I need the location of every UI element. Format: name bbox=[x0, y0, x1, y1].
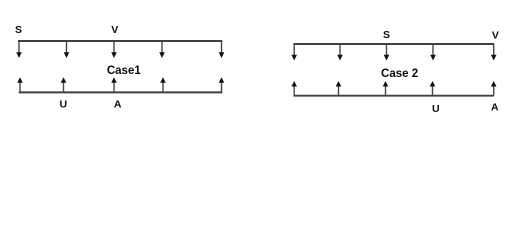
case1 up arrow 3 bbox=[111, 77, 117, 92]
svg-text:Case 2: Case 2 bbox=[381, 68, 418, 80]
case1 top rail bbox=[18, 40, 222, 42]
case1 down arrow 3 bbox=[111, 41, 117, 58]
case2 up arrow 1 bbox=[291, 81, 297, 96]
case2 up arrow 5 bbox=[491, 81, 497, 96]
case2 down arrow 4 bbox=[430, 44, 436, 61]
case1 up arrow 5 bbox=[219, 77, 225, 92]
case2 down arrow 3 bbox=[384, 44, 390, 61]
case1 down arrow 4 bbox=[159, 41, 165, 58]
svg-text:A: A bbox=[114, 99, 122, 111]
svg-text:U: U bbox=[60, 99, 68, 111]
case2 up arrow 4 bbox=[430, 81, 436, 96]
case2 down arrow 2 bbox=[337, 44, 343, 61]
case1 bottom rail bbox=[19, 91, 223, 93]
svg-text:A: A bbox=[491, 102, 499, 114]
case1 up arrow 2 bbox=[61, 77, 67, 92]
case1 down arrow 2 bbox=[64, 41, 70, 58]
case1 down arrow 5 bbox=[219, 41, 225, 58]
case1 up arrow 4 bbox=[160, 77, 166, 92]
case2 down arrow 1 bbox=[291, 44, 297, 61]
case1 up arrow 1 bbox=[17, 77, 23, 92]
case2 up arrow 2 bbox=[336, 81, 342, 96]
case2 top rail bbox=[293, 43, 494, 45]
case2 down arrow 5 bbox=[491, 44, 497, 61]
svg-text:S: S bbox=[15, 24, 22, 36]
svg-text:S: S bbox=[383, 29, 390, 41]
case2 bottom rail bbox=[294, 95, 494, 97]
case1 down arrow 1 bbox=[16, 41, 22, 58]
svg-text:V: V bbox=[111, 24, 118, 36]
svg-text:Case1: Case1 bbox=[107, 65, 141, 77]
svg-text:V: V bbox=[492, 30, 499, 42]
case2 up arrow 3 bbox=[383, 81, 389, 96]
svg-text:U: U bbox=[432, 103, 440, 115]
